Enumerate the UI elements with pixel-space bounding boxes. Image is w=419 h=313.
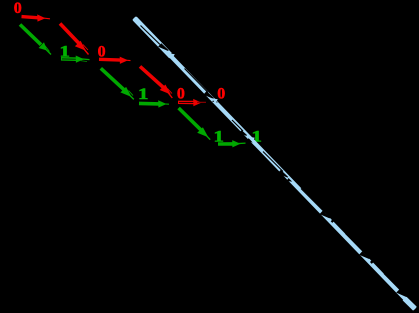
label 0 (red, step 1)	[14, 0, 22, 17]
gap after segment 1	[171, 53, 173, 55]
red arrow step1 horizontal (bit 0)	[22, 14, 51, 21]
label 0 (red, step 3 right of line)	[217, 86, 225, 103]
label 1 (green, step 1)	[60, 43, 70, 61]
label 1 (green, step 3 left of line)	[214, 128, 224, 146]
svg-text:0: 0	[217, 86, 225, 103]
green arrow step3 horizontal (bit 1)	[218, 140, 246, 147]
gap after segment 5	[332, 220, 334, 222]
red arrow step2 horizontal (bit 0)	[99, 57, 131, 64]
svg-text:1: 1	[138, 85, 148, 103]
segment 2 inner dark arrow	[185, 69, 209, 93]
blue diagonal band (sequence of light blue arrows head to tail)	[134, 18, 415, 309]
green arrow step3 diagonal	[179, 108, 211, 140]
segment 1 inner dark arrow	[141, 26, 161, 45]
segment 7 inner dark dash near end	[384, 274, 400, 290]
green arrow step1 horizontal (bit 1), doubled shaft	[61, 56, 90, 63]
lower-left edge wedge after segment 4	[287, 179, 290, 181]
green arrow step1 diagonal	[20, 25, 51, 55]
red arrow step1 diagonal	[60, 24, 89, 55]
blue band inner dark arrow silhouettes and segment gaps	[141, 26, 407, 297]
segment 3 inner dark dash	[232, 120, 243, 131]
lower-left edge wedge after segment 2	[213, 100, 216, 102]
green arrow step2 horizontal (bit 1)	[139, 100, 169, 107]
label 0 (red, step 3 left of line)	[177, 86, 185, 103]
label 1 (green, step 2)	[138, 85, 148, 103]
gap after segment 6	[371, 261, 373, 263]
label 0 (red, step 2)	[98, 43, 106, 60]
svg-text:0: 0	[14, 0, 22, 17]
red arrow step2 diagonal	[140, 66, 172, 98]
segment 4 inner dark arrow	[263, 152, 283, 172]
green arrow step2 diagonal	[101, 68, 134, 99]
segment 5 inner dark arrow	[301, 189, 325, 213]
label 1 (green, step 3 right of line)	[252, 128, 262, 146]
segment 6 inner dark arrow	[346, 234, 362, 250]
svg-text:0: 0	[177, 86, 185, 103]
blue band widened arrowhead bits	[169, 53, 255, 142]
red arrow step3 horizontal (bit 0), doubled shaft	[178, 99, 206, 106]
lower-left edge wedge at 1|1 crossing	[247, 139, 251, 142]
